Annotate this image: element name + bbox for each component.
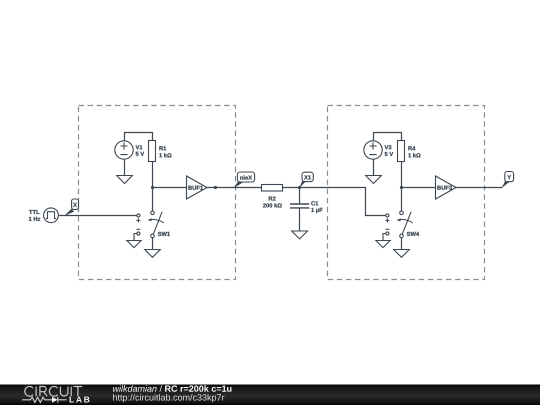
ground under SW1 xyxy=(145,250,161,258)
CircuitLab logo wordmark LAB xyxy=(70,397,90,403)
node flag Y xyxy=(502,172,514,189)
capacitor C1 xyxy=(290,201,323,213)
wire BUF1 output to R2 xyxy=(207,187,262,189)
ground under V3 xyxy=(366,176,382,184)
CircuitLab logo resistor-diode glyph xyxy=(22,397,66,403)
footer credit line xyxy=(113,385,232,402)
enclosure box 1 (left dashed) xyxy=(79,106,236,280)
switch SW1 xyxy=(148,211,171,238)
TTL square-wave source VS1 xyxy=(29,208,59,223)
node dot at R4/SW4/BUF3 xyxy=(400,186,403,189)
buffer BUF1 xyxy=(187,176,208,199)
node dot X1 junction xyxy=(298,186,301,189)
wire V3 top to R4 top xyxy=(374,133,402,141)
wire BUF3 output to Y flag xyxy=(456,187,503,189)
junction dot after BUF1 xyxy=(214,186,217,189)
wire node to BUF3 input xyxy=(402,187,436,189)
SW1 control + terminal xyxy=(136,214,140,223)
CircuitLab logo wordmark CIRCUIT xyxy=(25,386,82,396)
wire V1 top to R1 top xyxy=(125,133,153,141)
footer bar xyxy=(0,385,540,405)
wire C1 bottom to ground xyxy=(299,208,301,231)
resistor R1 xyxy=(149,141,172,162)
node flag nieX xyxy=(233,172,254,188)
enclosure box 2 (right dashed) xyxy=(328,106,485,280)
voltage source V3 xyxy=(364,141,393,159)
node flag X xyxy=(64,199,79,216)
wire R4 bottom to node xyxy=(401,162,403,188)
wire V1 bottom to ground xyxy=(124,159,126,175)
ground at SW1 control xyxy=(127,241,141,248)
SW4 control - terminal xyxy=(383,229,389,240)
wire R2 to X1 node xyxy=(283,187,300,189)
wire SW4 bottom to ground xyxy=(401,238,403,250)
wire SW1 bottom to ground xyxy=(152,238,154,250)
wire X1 node to box2 bend xyxy=(300,188,386,216)
wire node to BUF1 input xyxy=(153,187,187,189)
node flag X1 xyxy=(299,172,313,188)
SW4 control + terminal xyxy=(385,214,389,223)
wire TTL output to SW1 control + xyxy=(58,215,136,217)
ground at SW4 control xyxy=(376,241,390,248)
ground under V1 xyxy=(117,176,133,184)
SW1 control - terminal xyxy=(134,229,140,240)
voltage source V1 xyxy=(115,141,144,159)
ground under SW4 xyxy=(394,250,410,258)
resistor R2 xyxy=(262,185,283,208)
wire C1 top stem xyxy=(299,188,301,205)
buffer BUF3 xyxy=(436,176,457,199)
wire SW4 top stem xyxy=(401,188,403,212)
resistor R4 xyxy=(398,141,421,162)
wire R1 bottom to node xyxy=(152,162,154,188)
switch SW4 xyxy=(397,211,420,238)
wire SW1 top stem xyxy=(152,188,154,212)
ground under C1 xyxy=(292,231,308,239)
wire V3 bottom to ground xyxy=(373,159,375,175)
node dot at R1/SW1/BUF1 xyxy=(151,186,154,189)
